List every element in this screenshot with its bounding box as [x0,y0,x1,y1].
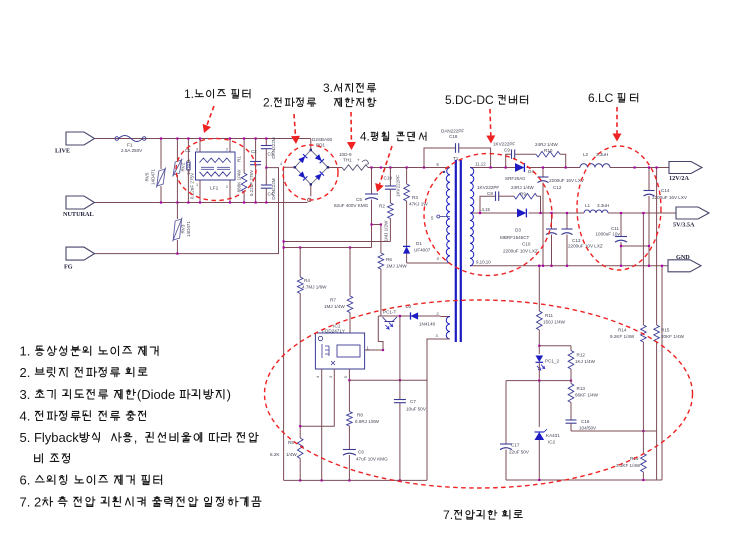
varistor RV2 [173,137,191,203]
svg-text:150J 1/4W: 150J 1/4W [543,320,566,325]
svg-text:R10: R10 [544,148,553,153]
resistor R1 [236,137,247,203]
svg-text:C9: C9 [504,148,510,153]
diode PC1_2 opto LED [536,346,560,381]
fuse F1 [115,136,146,154]
svg-text:R11: R11 [545,313,554,318]
wire opto emitter jog [378,316,383,350]
resistor R13 66KF [568,369,598,403]
svg-text:1MJ 1/4W: 1MJ 1/4W [386,264,407,269]
wire 12V rail [470,167,669,169]
capacitor C2 [249,137,261,203]
svg-text:DAN222M: DAN222M [271,137,276,158]
svg-text:TH1: TH1 [343,158,352,163]
svg-text:GND: GND [676,254,690,261]
svg-text:C2: C2 [251,149,257,154]
svg-text:R7: R7 [330,298,336,303]
svg-text:6.LC: 6.LC [588,91,617,105]
capacitor C8 snubber [477,185,514,214]
svg-text:4.: 4. [20,408,34,423]
svg-text:RV2: RV2 [181,162,186,171]
svg-text:C16: C16 [581,419,590,424]
svg-text:R3: R3 [412,195,418,200]
svg-text:R9: R9 [520,192,526,197]
bridge rectifier BD1 D2SBA60 [280,137,342,196]
capacitor C16 104/50V [566,403,598,432]
highlight ellipse 7 feedback [265,300,693,488]
svg-text:1.: 1. [20,344,34,359]
svg-text:20KF 1/4W: 20KF 1/4W [661,334,685,339]
transformer T1 core [453,156,461,342]
svg-text:L1: L1 [585,203,591,208]
svg-text:C12: C12 [553,185,562,190]
svg-text:RV3: RV3 [181,224,186,233]
wire C16 bottom run [571,430,657,480]
resistor R6 1MJ [378,225,407,317]
svg-text:R6: R6 [386,257,392,262]
capacitor C5 82uF 400V [334,168,378,248]
svg-text:14D471: 14D471 [186,221,191,238]
svg-text:C14: C14 [661,188,670,193]
svg-text:2: 2 [226,185,228,189]
svg-text:PC1_2: PC1_2 [545,359,559,364]
svg-text:66KF 1/4W: 66KF 1/4W [575,393,599,398]
svg-text:NUTURAL: NUTURAL [63,211,94,218]
resistor R3 47KJ 1W [404,168,429,247]
wire fb mid link [506,380,572,382]
svg-text:12V/2A: 12V/2A [669,175,689,182]
svg-text:82uF 400V KMG: 82uF 400V KMG [334,203,369,208]
op-amp U1 IC1 FOD2471 PWM controller [315,324,370,379]
highlight circle bridge [283,145,338,200]
resistor R14 9.2KF [610,212,646,454]
label 6 lc filter [588,91,638,105]
note line 7 [20,473,162,488]
svg-text:D1: D1 [416,241,422,246]
resistor R8 6.8RJ [347,412,380,450]
wire 5V rail [470,212,676,214]
svg-text:10uF 50V: 10uF 50V [406,407,427,412]
svg-text:2200uF 16V LXV: 2200uF 16V LXV [549,178,585,183]
svg-text:PC1-T: PC1-T [383,310,396,315]
svg-text:3.: 3. [323,81,333,95]
svg-text:D2SBA60: D2SBA60 [312,137,333,142]
resistor R11 150J [537,265,566,346]
svg-text:DAN222PF: DAN222PF [441,129,464,134]
svg-text:MBRF1545CT: MBRF1545CT [500,235,530,240]
svg-text:2.5A 250V: 2.5A 250V [121,148,143,153]
resistor R15 20KF [654,166,685,431]
inductor LF1 common-mode choke [196,137,236,203]
connector J3 FG [64,247,95,270]
svg-text:R14: R14 [618,328,627,333]
svg-text:1.: 1. [184,87,194,101]
node rail junctions [370,166,425,168]
svg-text:4.7MJ 1/6W: 4.7MJ 1/6W [302,285,327,290]
svg-text:LF1: LF1 [210,186,219,192]
resistor R12 1KJ [568,346,595,369]
svg-text:4: 4 [280,162,282,166]
inductor L2 3.3uH [580,152,636,169]
node bridge AC2 pin circle [308,198,311,201]
node GND rail dots [538,265,663,267]
svg-text:FOD2471Y: FOD2471Y [322,329,345,334]
svg-text:2200uF 10V LXZ: 2200uF 10V LXZ [568,244,603,249]
svg-text:24RJ 1/4W: 24RJ 1/4W [511,185,534,190]
connector J1 LIVE [55,132,95,155]
note line 3 [20,387,231,402]
note line 5 [20,430,259,445]
diode D2 1N4148 [406,304,436,327]
svg-text:1MJ 1/4W: 1MJ 1/4W [324,304,345,309]
svg-text:6.8RJ 1/8W: 6.8RJ 1/8W [355,419,380,424]
capacitor C9 snubber [493,142,536,169]
wire IC1 pin4 [321,369,323,480]
svg-text:KA431: KA431 [546,433,560,438]
svg-text:R13: R13 [577,386,586,391]
svg-text:8.2K: 8.2K [270,452,280,457]
svg-text:): ) [227,387,231,402]
inductor L1 3.3uH [584,203,609,213]
svg-text:3.3uH: 3.3uH [596,152,608,157]
capacitor C12 2200uF [538,166,585,267]
varistor RV5 [145,137,166,203]
svg-text:IC2: IC2 [548,440,556,445]
wire main DC+ rail [334,167,445,169]
wire bottom rail left [284,479,427,481]
connector GND output [668,254,701,272]
wire LIVE lead [95,138,115,140]
svg-text:R15: R15 [661,328,670,333]
svg-text:47uF 10V KMG: 47uF 10V KMG [356,457,388,462]
svg-text:R4: R4 [304,278,310,283]
capacitor C11 1000uF [596,212,651,267]
svg-text:R5: R5 [288,440,294,445]
svg-text:C7: C7 [410,399,416,404]
arrow to noise filter [203,106,214,133]
svg-text:10D-9: 10D-9 [339,152,352,157]
svg-text:5.DC-DC: 5.DC-DC [445,93,497,107]
svg-text:RV5: RV5 [145,172,150,181]
svg-text:14,15: 14,15 [479,207,491,212]
svg-text:C8: C8 [487,191,493,196]
svg-text:C11: C11 [611,226,620,231]
svg-text:2.: 2. [263,96,273,110]
svg-text:(Diode: (Diode [137,387,179,402]
svg-text:1MJ 1/2W: 1MJ 1/2W [384,220,389,241]
svg-text:3.: 3. [20,387,34,402]
svg-text:C18: C18 [449,134,458,139]
svg-text:C17: C17 [511,443,520,448]
svg-text:1000uF 10v: 1000uF 10v [596,232,621,237]
svg-text:680K 1/4W: 680K 1/4W [236,169,241,192]
svg-text:C13: C13 [572,238,581,243]
svg-text:C1: C1 [185,148,191,153]
capacitor C19 [384,168,401,198]
connector 5V output [673,207,709,229]
svg-text:104/50V: 104/50V [579,426,597,431]
svg-text:1/4W: 1/4W [286,452,297,457]
inductor T1 secondary lower [470,207,491,266]
node T1 pin5 stub [431,215,450,221]
label 7 voltage feedback [443,508,522,522]
svg-text:1N4148: 1N4148 [419,322,436,327]
inductor T1 aux winding [436,311,451,339]
svg-text:2: 2 [226,148,228,152]
resistor R4 4.7MJ [297,248,327,439]
svg-text:5. Flyback: 5. Flyback [20,430,80,445]
wire IC1 pin1 [365,349,385,351]
connector 12V output [669,162,702,183]
svg-text:2200uF 16V LXV: 2200uF 16V LXV [652,195,688,200]
varistor RV3 [173,203,191,255]
inductor T1 primary [437,162,451,263]
diode D3 MBRF1545CT [500,209,530,240]
svg-text:3.3uH: 3.3uH [597,203,609,208]
arrow to LC filter [613,107,622,142]
svg-text:1KV222PF: 1KV222PF [477,185,499,190]
svg-text:24RJ 1/4W: 24RJ 1/4W [535,142,558,147]
wire IC1 pin5 [348,369,350,412]
note line 8 [20,494,262,509]
capacitor C3 [261,137,276,167]
svg-text:1KJ 1/4W: 1KJ 1/4W [575,359,596,364]
resistor R2 [379,189,393,241]
svg-text:R8: R8 [357,413,363,418]
svg-text:R12: R12 [577,353,586,358]
resistor R10 24RJ [535,142,567,169]
resistor R5 8.2K [270,438,303,480]
svg-text:FG: FG [64,264,73,271]
wire FG rail [95,168,279,254]
wire LIVE rail [95,138,311,140]
svg-text:DAN222M: DAN222M [271,178,276,199]
capacitor C14 2200uF [644,166,688,267]
svg-text:+: + [357,158,360,163]
svg-text:R2: R2 [379,204,385,209]
note line 2 [20,365,148,380]
note line 6 [35,451,70,466]
capacitor C10 2200uF [503,212,557,267]
svg-text:2.: 2. [20,365,34,380]
resistor R9 24RJ [511,185,542,214]
capacitor C13 2200uF [562,212,603,267]
svg-text:9.2KF 1/4W: 9.2KF 1/4W [610,334,635,339]
svg-text:14D471: 14D471 [151,169,156,186]
connector J2 NUTURAL [63,196,95,218]
thermistor TH1 10D-9 [339,152,369,170]
inductor T1 secondary upper [470,162,486,214]
svg-text:22uF 50V: 22uF 50V [509,450,530,455]
wire C5-R6 link [370,223,382,225]
svg-text:7.: 7. [443,508,453,522]
svg-text:1: 1 [196,183,198,187]
svg-text:C5: C5 [356,197,362,202]
node Y-cap midpoint [265,167,267,169]
label 3 surge line1 [323,81,376,95]
svg-text:0.22uF 275V: 0.22uF 275V [249,169,254,196]
svg-text:6.: 6. [20,473,34,488]
svg-text:SRF20A0: SRF20A0 [505,176,525,181]
svg-text:1KV222PF: 1KV222PF [493,142,515,147]
wire fb top link [538,345,571,347]
svg-text:C6: C6 [358,450,364,455]
highlight circle DC-DC [424,154,552,276]
transistor PC1-T opto [378,310,440,330]
arrow to C5 [375,146,392,192]
capacitor C1 [185,137,195,203]
wire GND drop right [661,266,663,480]
diode D4 SRF20A0 [505,163,534,181]
label 4 smoothing cap [360,131,426,144]
wire aux bottom lead [427,339,450,480]
label 1 noise filter [184,87,250,101]
resistor R16 3.3KF [616,454,646,482]
capacitor C4 [261,168,276,204]
label 3 surge line2 [334,98,376,107]
arrow to DC-DC [486,109,495,144]
svg-text:,: , [134,430,145,445]
svg-text:3.3KF 1/4W: 3.3KF 1/4W [616,463,641,468]
svg-text:L2: L2 [583,152,589,157]
svg-text:9,10,10: 9,10,10 [476,260,491,265]
svg-text:C10: C10 [522,242,531,247]
wire aux top lead [441,316,451,318]
svg-text:7. 2: 7. 2 [20,494,42,509]
note line 4 [20,408,146,423]
wire DC- column [283,169,285,481]
svg-text:3: 3 [196,148,198,152]
svg-text:T1: T1 [453,156,459,161]
svg-text:5V/3.5A: 5V/3.5A [673,222,695,229]
capacitor C7 10uF 50V [394,316,427,480]
wire bottom rail right [506,479,662,481]
wire C5 bottom run [283,246,372,248]
svg-text:C19: C19 [384,176,393,181]
label 5 dcdc converter [445,93,528,107]
capacitor C18 DAN222PF [424,129,492,169]
label 2 bridge rectify [263,96,316,110]
highlight circle LC filter [577,146,661,270]
svg-text:1KV222PF: 1KV222PF [396,175,401,197]
wire NUTURAL rail [95,202,308,204]
wire IC1 pin3 [299,369,334,427]
wire D1 to xfmr pin4 [407,262,444,264]
capacitor C17 22uF 50V [500,381,530,480]
diode D1 UF4007 [403,241,431,263]
svg-text:11,12: 11,12 [475,162,486,167]
diode KA431 IC2 shunt regulator [535,381,561,482]
svg-text:D3: D3 [515,228,521,233]
resistor R7 1MJ [324,248,353,334]
svg-text:4.: 4. [360,131,370,144]
highlight circle noise filter [176,139,256,201]
wire pin5 run [349,379,427,381]
capacitor C6 47uF [343,450,388,481]
wire R2 bottom run [283,240,391,242]
note line 1 [20,344,159,359]
svg-text:UF4007: UF4007 [414,248,431,253]
arrow to TH1 [347,112,356,150]
svg-text:2200uF 10V LXZ: 2200uF 10V LXZ [503,249,538,254]
svg-text:LIVE: LIVE [55,148,70,155]
arrow to bridge [291,114,300,144]
wire GND rail [470,265,668,267]
svg-text:R1: R1 [236,156,241,162]
